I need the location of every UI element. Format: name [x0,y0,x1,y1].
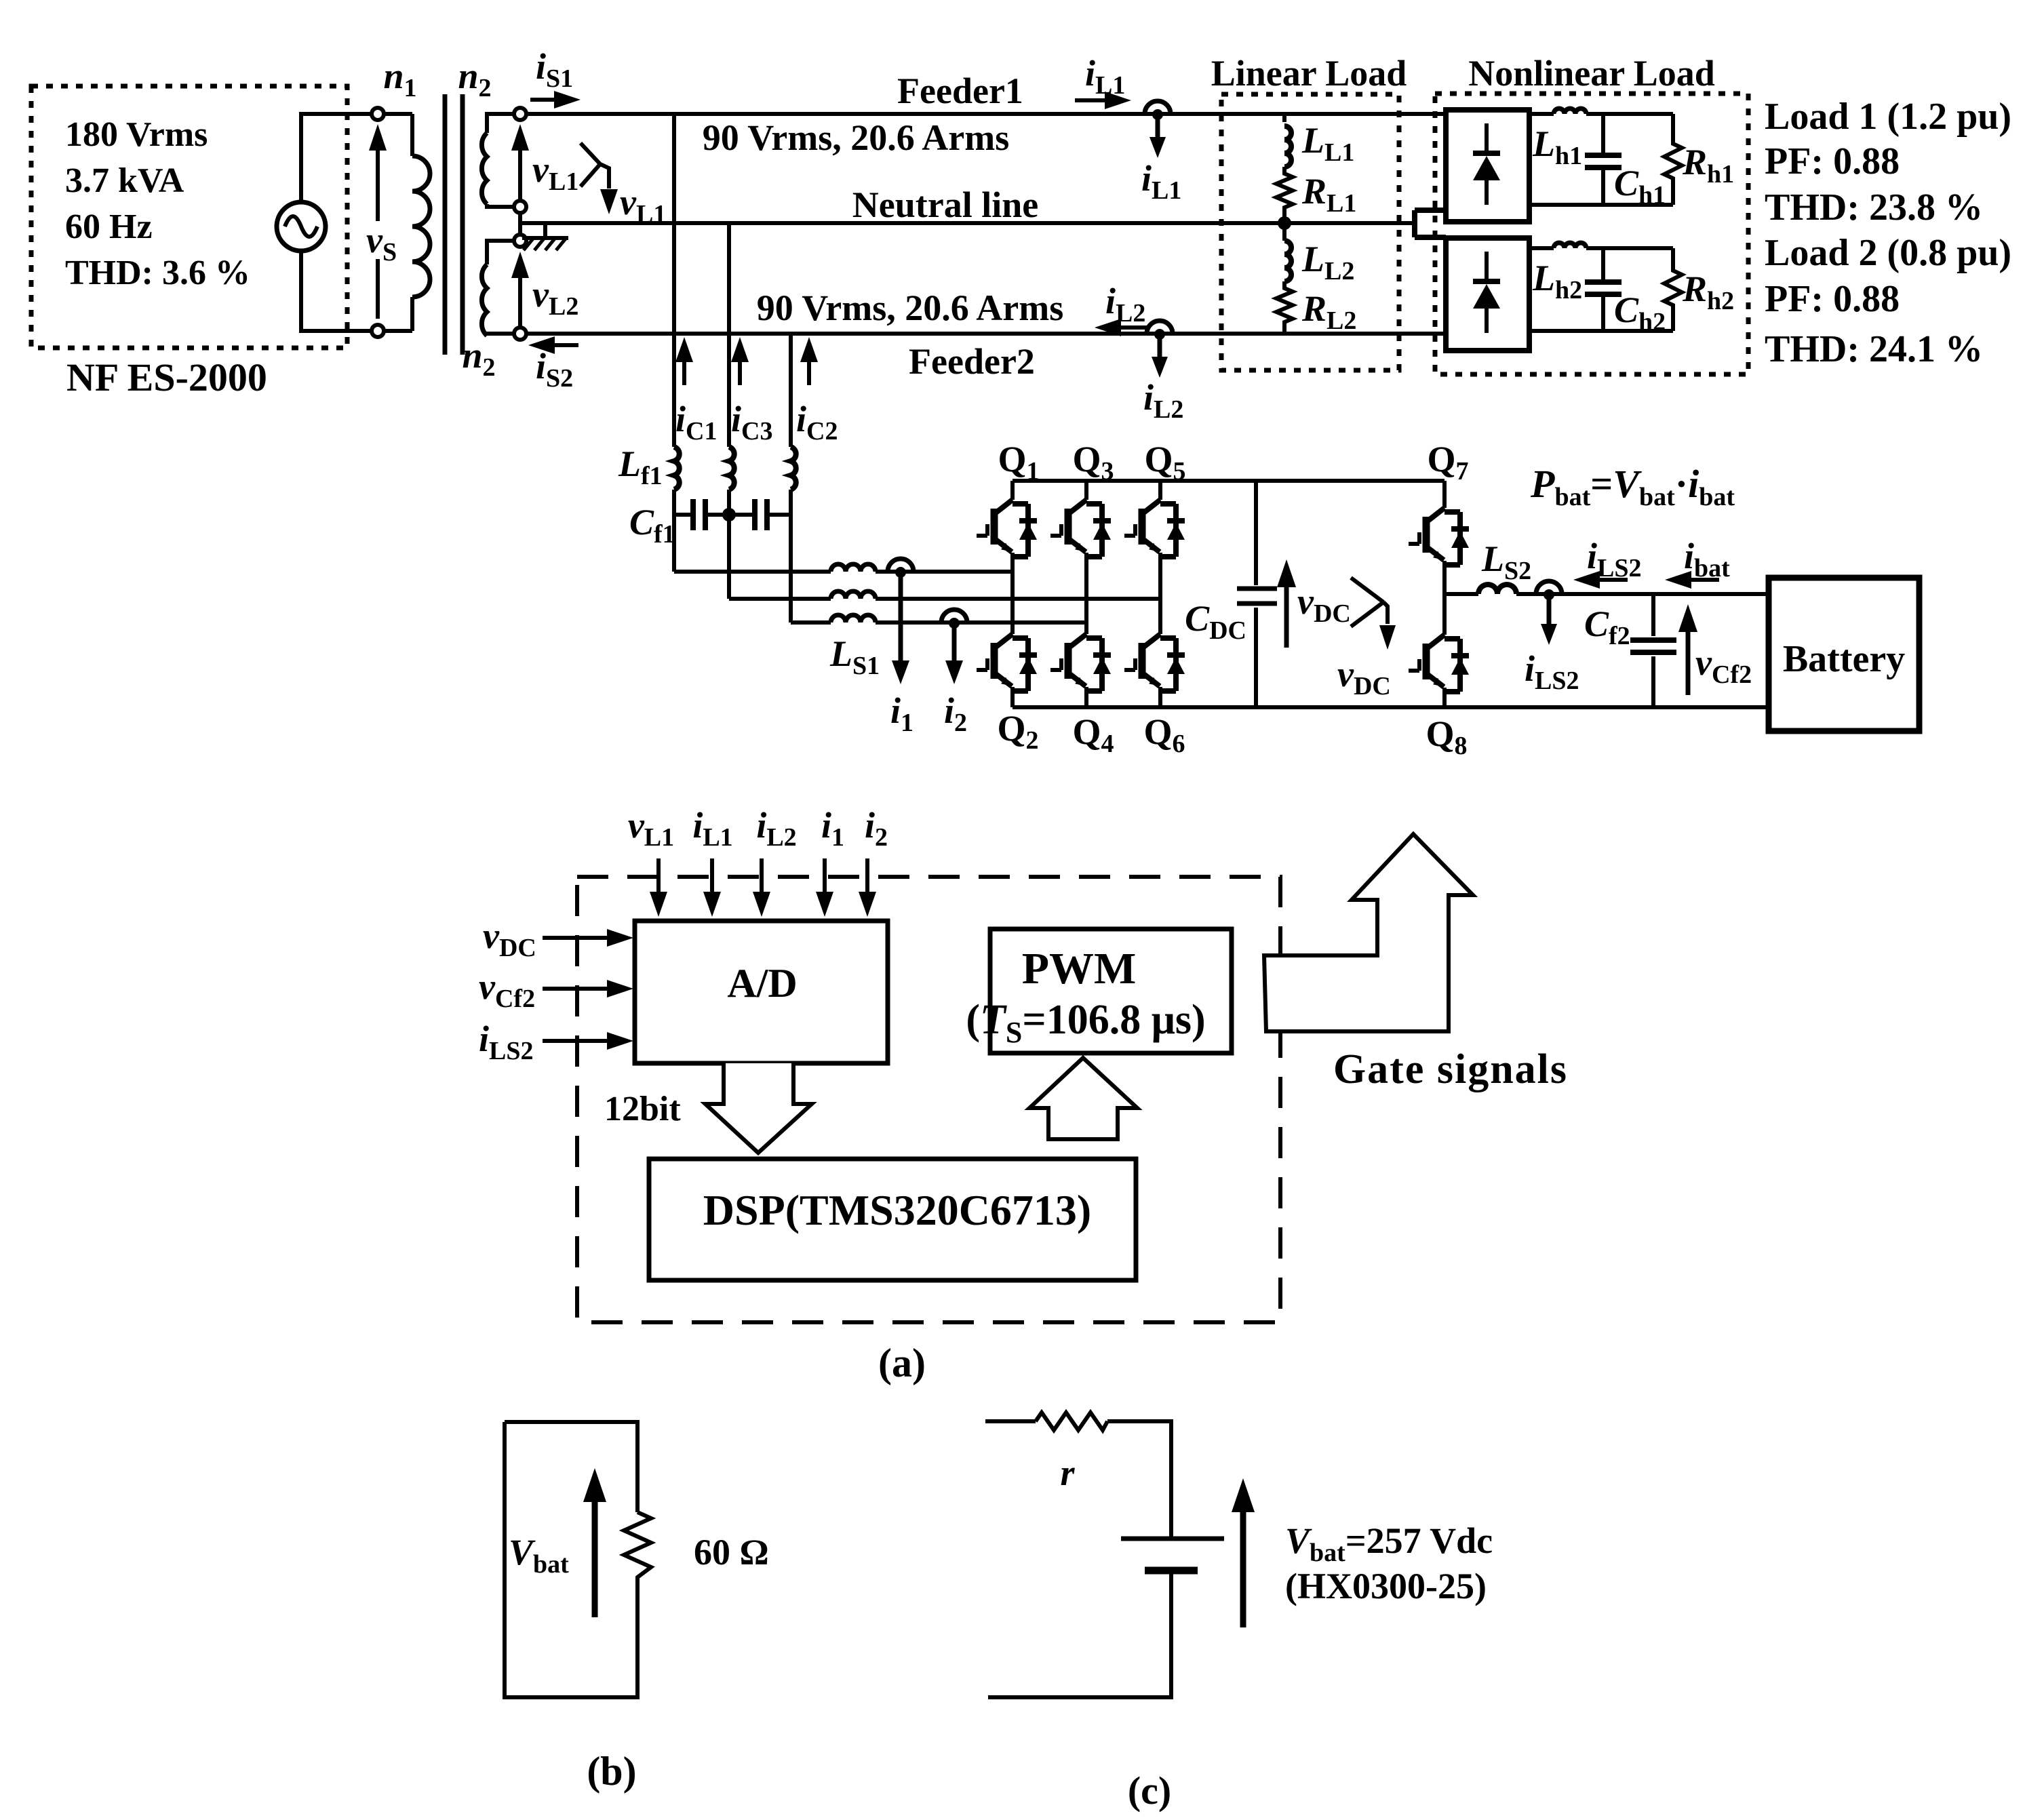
source box NF ES-2000 (dashed) [31,86,347,348]
node: secondary top (feeder1) [514,108,526,120]
resistor 60ohm [624,1512,651,1583]
svg-text:Lh2: Lh2 [1532,258,1582,304]
probe vDC [1351,578,1388,627]
iS2 arrow [542,343,578,347]
12bit block arrow [705,1063,812,1153]
ibat arrow [1678,578,1719,582]
svg-text:Q5: Q5 [1144,439,1185,486]
transistor Q2 [1010,572,1015,707]
svg-text:vS: vS [366,220,397,266]
wire: Lh1 to Rh1 [1586,112,1673,116]
svg-text:NF ES-2000: NF ES-2000 [66,355,267,399]
svg-text:(a): (a) [878,1341,926,1385]
resistor RL2 [1276,281,1293,334]
capacitor Ch2 [1601,248,1605,331]
node: secondary bottom (feeder2) [514,328,526,340]
transistor Q6 [1124,634,1185,691]
svg-text:3.7 kVA: 3.7 kVA [65,161,184,200]
svg-text:Vbat: Vbat [509,1532,569,1579]
resistor Rh2 [1664,248,1682,331]
vL1 input arrow [656,858,661,902]
svg-text:12bit: 12bit [604,1090,681,1128]
wire: vertical from neutral [727,223,731,599]
inductor Lh2 [1554,243,1586,248]
wire: battery mid line [1444,592,1769,596]
svg-text:Q1: Q1 [998,439,1039,486]
svg-text:n1: n1 [383,56,416,102]
node: Cf1 junction [722,508,736,521]
inductor Lf1 b [729,447,734,490]
transformer secondary winding upper n2 [481,133,487,204]
svg-text:60 Ω: 60 Ω [694,1532,769,1573]
vCf2 arrow [1686,617,1691,695]
wire: source loop [301,114,412,202]
svg-text:iL1: iL1 [1141,158,1181,205]
svg-text:THD: 3.6 %: THD: 3.6 % [65,254,250,292]
svg-text:Nonlinear Load: Nonlinear Load [1468,53,1715,94]
svg-text:A/D: A/D [727,961,797,1006]
iL2 arrow [1108,325,1147,330]
wire: vertical from feeder2 [789,334,793,623]
CT i2 on line3 [941,610,967,623]
transformer primary winding n1 [410,114,414,331]
neutral tap rectangle [1415,210,1446,237]
svg-text:LL2: LL2 [1301,239,1354,285]
vDC arrow [1284,573,1289,648]
svg-text:90 Vrms, 20.6 Arms: 90 Vrms, 20.6 Arms [703,117,1009,158]
capacitor CDC [1254,481,1258,707]
node: primary top terminal [372,108,384,120]
inductor LS1 c [831,615,876,623]
transistor Q7 [1442,481,1447,594]
svg-text:Q8: Q8 [1426,713,1467,760]
svg-text:vCf2: vCf2 [1695,642,1752,689]
transistor Q4 [1050,634,1111,691]
wire: dc bottom bus to battery [1444,705,1769,709]
svg-text:vDC: vDC [483,915,536,962]
node: primary bottom terminal [372,325,384,337]
iL1 arrow [1075,98,1118,102]
svg-text:(TS=106.8 μs): (TS=106.8 μs) [966,997,1205,1049]
svg-text:RL2: RL2 [1301,288,1356,335]
wire: load2 bottom [1529,329,1673,333]
PWM up block arrow [1029,1058,1137,1139]
svg-text:Q4: Q4 [1072,711,1114,758]
transistor Q3 [1084,481,1088,707]
svg-text:Pbat=Vbat·ibat: Pbat=Vbat·ibat [1530,462,1735,511]
diode D1 [1485,123,1489,205]
battery cell symbol [1121,1537,1224,1541]
wire: Feeder1 [527,112,1446,116]
wire: load1 bottom [1529,203,1673,207]
wire: top lead c [985,1419,1036,1423]
svg-text:THD: 24.1 %: THD: 24.1 % [1765,328,1983,370]
wire: Neutral line [520,221,1415,225]
rectifier 2 box [1446,238,1529,351]
transistor Q8 [1442,594,1447,707]
svg-text:iS1: iS1 [536,46,573,93]
svg-text:Q3: Q3 [1072,439,1114,486]
wire: phase line 2 [729,597,1160,601]
svg-text:LL1: LL1 [1301,120,1354,167]
svg-text:PWM: PWM [1022,944,1137,993]
linear load box (dashed) [1221,94,1399,370]
iC2 arrow [807,351,811,385]
svg-text:iLS2: iLS2 [1525,648,1579,695]
node: secondary mid upper [514,201,526,213]
svg-text:ibat: ibat [1684,536,1730,582]
svg-text:Neutral line: Neutral line [852,184,1038,225]
PWM box [990,929,1232,1053]
capacitor Ch1 [1601,114,1605,205]
svg-text:i1: i1 [890,690,913,737]
wire: rect1 to Lh1 [1529,112,1554,116]
svg-text:iC3: iC3 [731,399,772,446]
svg-text:Linear Load: Linear Load [1211,53,1407,94]
vL1 arrow at transformer [518,136,522,199]
vDC input arrow [543,936,620,940]
battery box [1769,578,1919,731]
probe vL1 [581,143,609,189]
svg-text:Q6: Q6 [1143,711,1185,758]
svg-text:Ch2: Ch2 [1614,290,1666,336]
svg-text:iC2: iC2 [796,399,838,446]
wire: phase line 1 [674,570,1013,574]
vCf2 input arrow [543,987,620,991]
svg-text:Cf2: Cf2 [1584,604,1630,650]
svg-text:vDC: vDC [1297,581,1351,628]
i1 input arrow [823,858,827,902]
ground symbol [522,223,568,238]
capacitor Cf1 a [674,513,729,517]
wire: to battery c [1107,1421,1171,1539]
wire: dc bottom bus [1013,705,1444,709]
inductor LS1 a [831,564,876,572]
Vbat arrow (b) [592,1499,598,1617]
svg-text:Q7: Q7 [1427,439,1468,486]
svg-text:Rh1: Rh1 [1682,142,1734,189]
svg-text:60 Hz: 60 Hz [65,208,153,246]
svg-text:iC1: iC1 [675,399,717,446]
svg-text:vL1: vL1 [620,182,666,229]
svg-text:iL2: iL2 [1105,281,1145,328]
svg-text:iLS2: iLS2 [1587,536,1642,582]
CT i1 on line1 [888,559,913,572]
svg-text:n2: n2 [462,335,495,382]
resistor Rh1 [1664,114,1682,205]
AC source VS [277,202,326,251]
iLS2 input arrow [543,1039,620,1043]
svg-text:i1: i1 [821,805,844,852]
svg-text:Load 2 (0.8 pu): Load 2 (0.8 pu) [1765,232,2011,274]
svg-text:90 Vrms, 20.6 Arms: 90 Vrms, 20.6 Arms [757,288,1063,328]
wire: Lh2 to Rh2 [1586,246,1673,250]
wire: rect2 to Lh2 [1529,246,1554,250]
resistor RL1 [1276,167,1293,223]
svg-text:Load 1 (1.2 pu): Load 1 (1.2 pu) [1765,96,2011,138]
capacitor Cf1 b [729,513,791,517]
svg-text:vL2: vL2 [532,274,578,321]
svg-text:i2: i2 [944,690,967,737]
transformer secondary winding lower n2 [481,264,487,336]
svg-text:n2: n2 [458,56,491,102]
nonlinear load box (dashed) [1435,94,1748,374]
inductor LS1 b [831,591,876,599]
inductor LS2 [1478,585,1516,594]
CT iL1 on feeder1 [1145,101,1171,114]
svg-text:vL1: vL1 [628,805,674,852]
svg-text:DSP(TMS320C6713): DSP(TMS320C6713) [703,1186,1091,1234]
i2 input arrow [865,858,869,902]
inductor Lf1 a [674,447,680,490]
inductor Lf1 c [791,447,796,490]
resistor r [1036,1412,1107,1430]
svg-text:THD: 23.8 %: THD: 23.8 % [1765,186,1983,229]
wire: vertical from feeder1 [672,114,676,572]
svg-text:Gate signals: Gate signals [1333,1046,1568,1092]
control box (dashed) [577,877,1280,1322]
inductor LL1 [1282,114,1286,171]
svg-text:Lh1: Lh1 [1532,123,1582,170]
rectifier 1 box [1446,110,1529,222]
svg-text:iL2: iL2 [756,805,796,852]
vS arrow [376,136,380,319]
svg-text:iL1: iL1 [1085,53,1125,100]
transistor Q5 [1158,481,1162,707]
transistor Q1 [1010,481,1015,572]
svg-text:Vbat=257 Vdc: Vbat=257 Vdc [1285,1520,1493,1567]
svg-text:r: r [1060,1453,1075,1493]
svg-text:PF: 0.88: PF: 0.88 [1765,140,1900,182]
svg-text:Battery: Battery [1783,638,1905,680]
iL1 input arrow [710,858,714,902]
CT iL2 on feeder2 [1147,321,1173,334]
svg-text:LS1: LS1 [829,633,880,680]
svg-text:Rh2: Rh2 [1682,269,1734,315]
svg-text:iLS2: iLS2 [479,1019,534,1065]
inductor Lh1 [1554,108,1586,114]
svg-text:iL1: iL1 [692,805,732,852]
wire: loop b [505,1422,637,1697]
svg-text:i2: i2 [865,805,888,852]
A/D box [635,921,888,1063]
Vbat arrow (c) [1240,1509,1246,1627]
svg-text:iL2: iL2 [1143,377,1183,424]
svg-text:LS2: LS2 [1481,538,1531,585]
svg-text:Q2: Q2 [997,708,1038,755]
inductor LL2 [1282,223,1286,285]
transformer core [445,94,463,355]
wire: Feeder2 [527,332,1446,336]
svg-text:PF: 0.88: PF: 0.88 [1765,278,1900,320]
svg-text:(c): (c) [1128,1768,1171,1813]
node: secondary mid lower [514,235,526,247]
svg-text:vCf2: vCf2 [479,966,535,1013]
diode D2 [1485,252,1489,333]
svg-text:(HX0300-25): (HX0300-25) [1285,1566,1487,1606]
svg-text:Feeder1: Feeder1 [897,71,1023,111]
svg-text:180 Vrms: 180 Vrms [65,115,208,154]
vL2 arrow at transformer [518,264,522,326]
wire: dc top bus [1013,479,1444,483]
wire: phase line 3 [791,620,1086,625]
iS1 arrow [530,98,567,102]
svg-text:Feeder2: Feeder2 [909,341,1035,382]
gate signals block arrow [1264,834,1473,1031]
svg-text:vDC: vDC [1337,654,1391,700]
wire: secondary mid link [518,214,522,233]
iLS2 arrow [1587,578,1628,582]
capacitor Cf2 [1651,594,1655,707]
svg-text:(b): (b) [587,1749,636,1794]
svg-text:vL1: vL1 [532,149,578,196]
CT iLS2 [1536,581,1562,594]
svg-text:Lf1: Lf1 [618,443,663,490]
svg-text:RL1: RL1 [1301,171,1356,218]
DSP box [649,1159,1136,1280]
node: neutral junction [1278,216,1291,230]
iC1 arrow [682,351,686,385]
iC3 arrow [738,351,742,385]
svg-text:Ch1: Ch1 [1614,163,1666,210]
iL2 input arrow [760,858,764,902]
svg-text:Cf1: Cf1 [629,502,675,549]
wire: bottom lead c [988,1570,1171,1697]
